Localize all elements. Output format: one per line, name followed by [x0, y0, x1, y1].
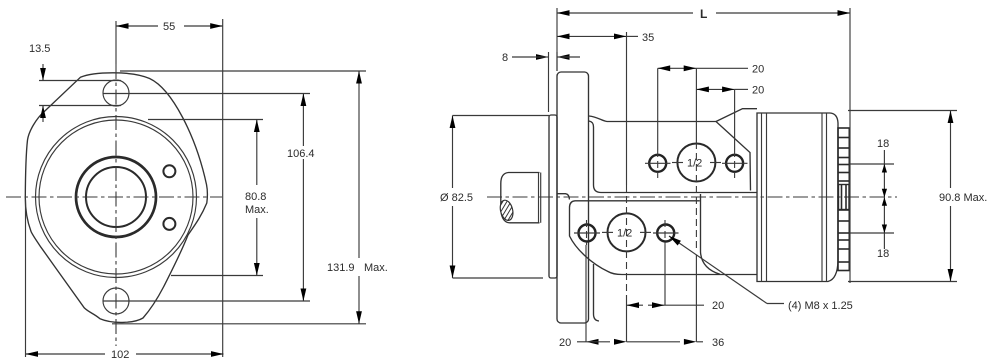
svg-text:80.8: 80.8 [245, 191, 266, 203]
svg-text:1/2: 1/2 [687, 158, 702, 170]
svg-text:131.9: 131.9 [327, 262, 355, 274]
svg-text:102: 102 [111, 349, 129, 361]
svg-text:20: 20 [559, 337, 571, 349]
svg-text:Max.: Max. [245, 204, 269, 216]
svg-text:13.5: 13.5 [29, 43, 50, 55]
svg-text:L: L [700, 7, 707, 21]
svg-text:20: 20 [752, 85, 764, 97]
svg-text:18: 18 [877, 248, 889, 260]
svg-text:Ø 82.5: Ø 82.5 [440, 192, 473, 204]
svg-text:18: 18 [877, 138, 889, 150]
svg-text:90.8 Max.: 90.8 Max. [939, 192, 987, 204]
svg-text:(4) M8 x 1.25: (4) M8 x 1.25 [788, 300, 853, 312]
svg-text:1/2: 1/2 [617, 228, 632, 240]
svg-text:106.4: 106.4 [287, 148, 315, 160]
svg-text:55: 55 [163, 21, 175, 33]
svg-text:8: 8 [502, 52, 508, 64]
svg-text:Max.: Max. [364, 262, 388, 274]
svg-text:20: 20 [752, 64, 764, 76]
svg-text:35: 35 [642, 32, 654, 44]
svg-text:36: 36 [712, 337, 724, 349]
svg-text:20: 20 [712, 300, 724, 312]
